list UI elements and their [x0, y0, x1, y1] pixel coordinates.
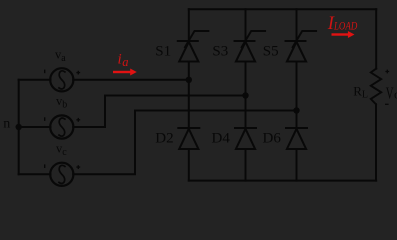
svg-text:S5: S5 [263, 44, 279, 60]
svg-text:n: n [3, 116, 10, 131]
diode D6 [286, 128, 307, 181]
svg-text:ILOAD: ILOAD [327, 14, 358, 34]
node c junction [293, 107, 299, 113]
left rail wire (n column) [18, 80, 20, 175]
wire vc right with step up [73, 111, 296, 175]
sine glyph in vc [59, 165, 65, 183]
source vc polarity plus [76, 165, 80, 169]
right rail lower wire [375, 104, 377, 180]
source vb polarity plus [76, 118, 80, 122]
svg-text:S3: S3 [212, 44, 228, 60]
source va polarity plus [76, 71, 80, 75]
thyristor S1 [178, 9, 209, 128]
svg-text:D4: D4 [212, 130, 231, 146]
source vb polarity minus [44, 117, 46, 121]
wire va right to column 1 [73, 79, 189, 81]
source vc polarity minus [44, 164, 46, 168]
svg-text:RL: RL [353, 83, 368, 100]
svg-text:D2: D2 [155, 130, 173, 146]
current arrow ILOAD [332, 31, 355, 38]
wire vc left [19, 173, 51, 175]
thyristor S5 [286, 9, 317, 128]
diode D2 [178, 128, 199, 181]
RL polarity plus [385, 70, 389, 74]
source vb circle [50, 115, 73, 138]
current arrow ia [113, 69, 137, 76]
node b junction [242, 92, 248, 98]
svg-text:va: va [55, 48, 66, 65]
resistor RL zigzag [371, 69, 381, 105]
wire va left [19, 79, 51, 81]
node a junction [186, 77, 192, 83]
source vc circle [50, 163, 73, 186]
source va circle [50, 68, 73, 91]
svg-text:S1: S1 [155, 44, 171, 60]
svg-text:vc: vc [56, 141, 67, 158]
right rail upper wire [375, 9, 377, 68]
bottom bus [189, 180, 376, 182]
sine glyph in va [59, 71, 65, 89]
RL polarity minus [385, 103, 389, 105]
diode D4 [235, 128, 256, 181]
top bus [189, 8, 376, 10]
svg-text:D6: D6 [263, 130, 282, 146]
sine glyph in vb [59, 118, 65, 136]
svg-text:vb: vb [56, 94, 67, 111]
thyristor S3 [235, 9, 266, 128]
svg-text:V: V [386, 83, 394, 102]
node n junction [16, 124, 22, 130]
source va polarity minus [44, 70, 46, 74]
svg-text:ia: ia [118, 52, 129, 70]
wire vb right with step up [73, 96, 245, 128]
wire vb left [19, 126, 51, 128]
